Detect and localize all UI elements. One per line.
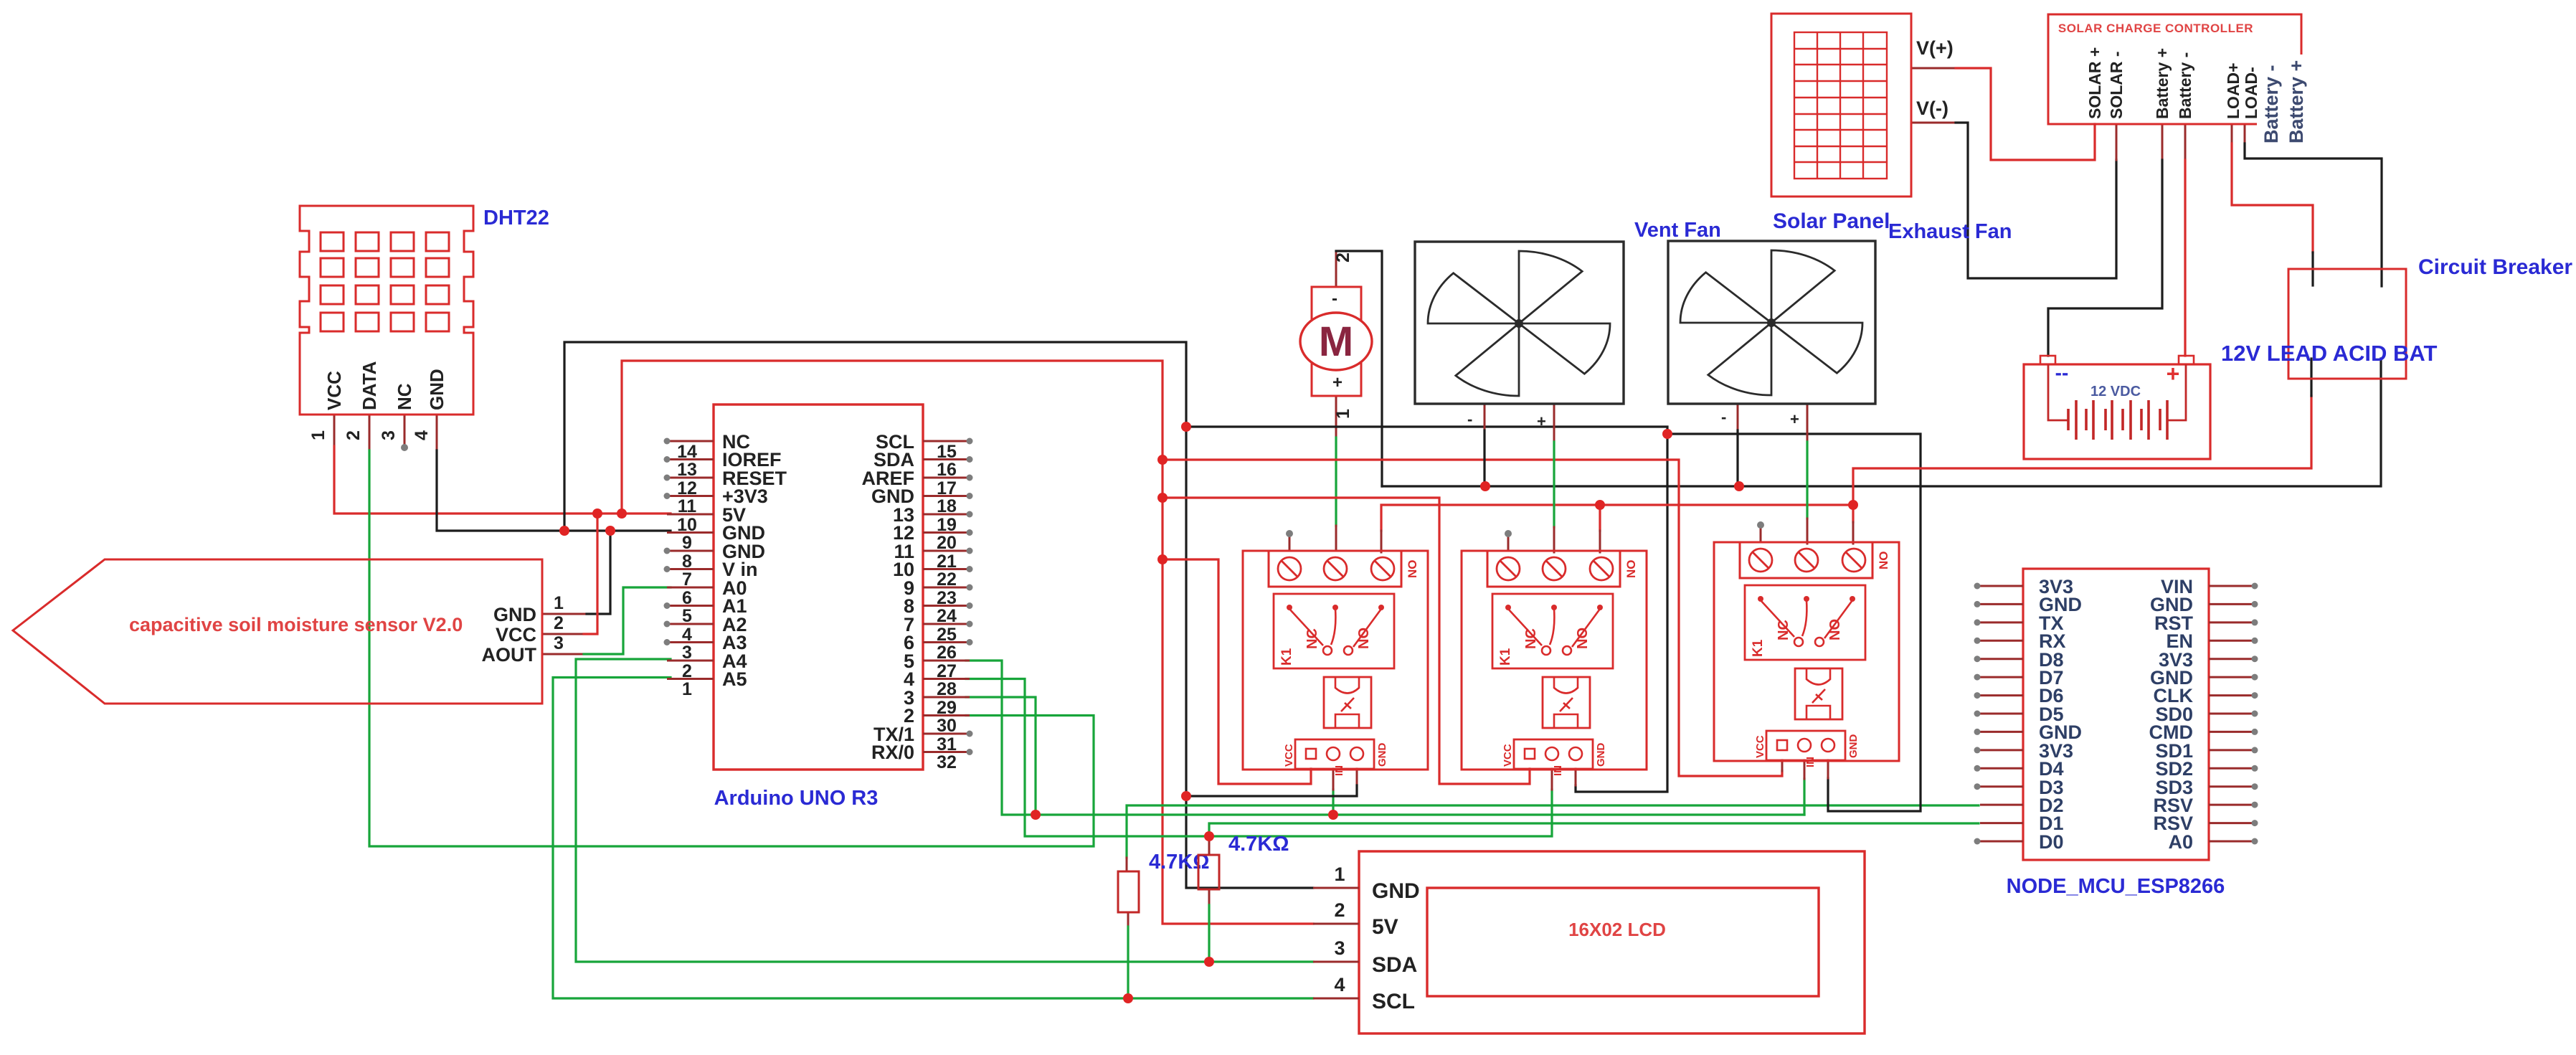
battery 12VDC box [2024,364,2210,459]
wire motor pin2 black drop [1336,251,1382,486]
panel Solar Panel cell grid [1794,32,1887,179]
wire solar panel V(-) stub [1911,122,1956,124]
svg-text:-: - [1332,289,1337,308]
svg-text:4: 4 [412,430,432,440]
fan Exhaust Fan box [1668,241,1875,404]
svg-text:2: 2 [344,430,364,440]
wire breaker top-left stub [2311,252,2314,285]
mcu Arduino UNO R3 body [714,405,923,770]
pin labels controller SOLAR+ SOLAR- Battery+ Battery- LOAD+ LOAD- [2085,47,2260,119]
wire solar panel V(+) stub [1911,67,1956,70]
wire controller Battery+ to battery terminal (black) [2048,160,2162,356]
pin labels vent fan - + [1467,410,1546,430]
fan Vent Fan blades [1428,251,1610,396]
svg-text:D0: D0 [2039,831,2064,853]
controller SOLAR CHARGE CONTROLLER box [2048,14,2301,124]
svg-text:10: 10 [677,515,697,535]
resistor R1 4.7K [1118,871,1139,912]
svg-text:13: 13 [677,460,697,480]
wire relay2 left screw stub [1507,536,1510,551]
svg-text:4.7KΩ: 4.7KΩ [1228,833,1289,856]
relay module 1 (K1, motor) [1243,551,1428,776]
svg-text:1: 1 [1334,864,1345,885]
wire breaker bottom-left stub [2310,359,2312,396]
svg-text:4: 4 [1334,974,1345,995]
svg-text:VCC: VCC [496,624,536,645]
wire relay1 NO stub [1381,531,1383,552]
wire motor pin2 stub [1335,251,1337,287]
wire Arduino A5 to SCL bus (green) [553,678,1313,999]
svg-text:3: 3 [379,430,399,440]
battery terminals [2040,356,2194,364]
wire relay3 GND stub [1827,760,1829,778]
wire DHT22 DATA to Arduino pin 2 (green, bus B4) [369,450,1094,846]
wire Arduino pin 4 to bus B3 / relay2 IN (green) [966,679,1552,837]
fan Vent Fan hub [1515,319,1523,328]
svg-text:NC: NC [394,383,415,410]
svg-text:16X02 LCD: 16X02 LCD [1568,919,1666,940]
svg-text:K1: K1 [1279,648,1294,666]
unconnected pin dots (gray) [401,438,2258,845]
svg-text:1: 1 [308,430,328,440]
svg-text:5V: 5V [1372,915,1398,939]
svg-text:SOLAR +: SOLAR + [2085,47,2104,119]
svg-text:RX/0: RX/0 [871,742,914,763]
wire relay1 IN to bus B2 (green) [1332,790,1334,815]
svg-text:VCC: VCC [323,371,345,410]
wire DHT22 VCC to Arduino 5V (red 5V net) [334,446,671,514]
wire resistor R2 bottom to SDA bus (green) [1208,905,1210,962]
svg-text:GND: GND [426,369,448,410]
svg-text:IN: IN [1333,765,1345,776]
relay1 bottom pin block [1295,739,1374,769]
pin numbers Arduino right 15..32 [937,442,957,772]
wire exhaust fan minus to black bus [1736,430,1738,486]
svg-text:22: 22 [937,569,957,590]
display 16X02 LCD inner box [1427,888,1819,996]
wire resistor R2 top stub to bus B3 [1208,836,1211,855]
wire black GND riser to top bus, right to LCD GND [564,342,1313,888]
svg-text:A5: A5 [722,668,747,690]
wire relay3 NO stub [1852,522,1855,544]
wire DHT22 DATA pin2 stub [369,415,371,450]
pin names Arduino left [722,431,787,690]
pin names NodeMCU right [2149,576,2194,853]
wire motor pin1 stub [1335,396,1337,437]
wire DHT22 VCC pin1 stub [333,415,336,446]
pin labels DHT22 VCC DATA NC GND [323,361,448,410]
relay1 K1 box [1274,594,1394,668]
svg-text:Battery +: Battery + [2153,48,2172,119]
svg-text:23: 23 [937,588,957,608]
svg-text:30: 30 [937,716,957,736]
mcu NODE_MCU_ESP8266 body [2023,569,2209,860]
svg-text:+: + [1790,410,1799,428]
relay1 screw terminals [1278,557,1394,580]
svg-text:SOLAR CHARGE CONTROLLER: SOLAR CHARGE CONTROLLER [2058,22,2253,35]
svg-text:2: 2 [1333,252,1353,262]
wire relay2 NO stub [1599,531,1601,552]
svg-text:GND: GND [1376,743,1388,767]
svg-text:NO: NO [1406,560,1419,579]
svg-text:SCL: SCL [1372,990,1415,1013]
wire resistor R1 top stub [1126,858,1128,871]
svg-text:16: 16 [937,460,957,480]
relay1 optocoupler box [1324,677,1371,728]
svg-text:capacitive soil moisture senso: capacitive soil moisture sensor V2.0 [129,614,463,635]
svg-text:9: 9 [682,533,692,553]
wire controller Battery+ stub [2161,124,2164,160]
pin names LCD GND 5V SDA SCL [1372,879,1420,1013]
wire solar panel V(+) to controller SOLAR+ [1956,68,2095,160]
pin labels motor 2 1 + - [1332,252,1353,419]
wire relay1 left screw stub [1289,536,1291,551]
wire Arduino pin 3 drop to bus B2 (green) [966,697,1036,815]
wire relay3 IN stub [1804,760,1806,779]
relay1 pin labels VCC IN GND [1283,743,1388,777]
svg-text:26: 26 [937,643,957,663]
wire relay1 IN stub [1332,769,1335,790]
svg-text:3: 3 [554,633,564,653]
svg-text:2: 2 [554,613,564,633]
wire controller LOAD+ stub [2231,124,2233,143]
svg-text:VCC: VCC [1283,744,1295,767]
svg-text:17: 17 [937,478,957,498]
svg-text:Battery +: Battery + [2286,60,2307,143]
pin numbers DHT22 1 2 3 4 [308,430,432,440]
wire resistor R1 bottom stub [1127,912,1130,927]
wire vent fan plus to relay2 middle screw (green) [1553,442,1555,527]
wire exhaust fan minus stub [1737,404,1739,430]
wire DHT22 GND pin4 stub [436,415,438,450]
svg-text:Arduino UNO R3: Arduino UNO R3 [714,787,879,810]
wire relay2 IN stub [1551,769,1553,790]
svg-text:18: 18 [937,496,957,516]
svg-text:3: 3 [1334,937,1345,959]
pins NodeMCU right stubs [2209,586,2252,841]
wire DHT22 NC pin3 stub [404,415,406,445]
svg-text:11: 11 [678,496,697,516]
wire vent fan minus to black bus [1483,430,1485,486]
wire soil sensor AOUT to Arduino A0 (green) [584,587,671,654]
pins LCD stubs [1313,888,1359,998]
wire exhaust fan plus lower stub [1806,519,1809,544]
svg-text:Solar Panel: Solar Panel [1773,209,1890,233]
wire relay1 GND stub [1356,769,1358,785]
relay1 optocoupler symbol [1335,677,1359,728]
relay1 outer box [1243,551,1428,770]
resistor R2 4.7K [1198,855,1219,889]
svg-text:3: 3 [682,643,692,663]
svg-text:14: 14 [677,442,697,462]
wire controller LOAD- to breaker (black) [2245,143,2382,286]
svg-text:DATA: DATA [359,361,380,410]
svg-text:28: 28 [937,679,957,699]
svg-text:7: 7 [682,569,692,590]
svg-text:-: - [1467,410,1472,428]
wire controller LOAD+ to breaker (red) [2232,143,2313,252]
svg-text:SOLAR -: SOLAR - [2107,51,2126,119]
svg-text:8: 8 [682,552,692,572]
pin numbers Arduino left 14..1 [677,442,697,699]
relay module 2 (vent fan) [1462,551,1647,776]
svg-text:Exhaust Fan: Exhaust Fan [1888,220,2012,243]
pins NodeMCU left stubs [1980,586,2023,841]
fan Exhaust Fan blades [1680,250,1862,395]
wire relay3 IN to bus B1 (green) [1803,779,1805,815]
svg-text:6: 6 [682,588,692,608]
svg-text:25: 25 [937,625,957,645]
svg-text:DHT22: DHT22 [483,207,549,230]
svg-text:NODE_MCU_ESP8266: NODE_MCU_ESP8266 [2007,875,2225,898]
svg-text:Vent Fan: Vent Fan [1634,219,1721,242]
svg-text:32: 32 [937,752,957,772]
svg-text:LOAD-: LOAD- [2242,67,2260,119]
wire controller SOLAR- stub [2116,124,2118,160]
wire relay3 VCC stub [1781,760,1784,771]
pin names NodeMCU left [2039,576,2082,853]
motor M1 body [1300,287,1372,396]
wire soil sensor VCC stub [542,633,584,635]
wire red 5V riser to top bus, down right side to LCD 5V [622,361,1313,924]
wire exhaust fan plus stub [1806,404,1809,442]
svg-text:+: + [2167,361,2180,387]
svg-text:5: 5 [682,606,692,626]
svg-text:31: 31 [937,734,957,754]
wire Arduino A4 to SDA bus (green) [576,659,1313,962]
svg-text:19: 19 [937,515,957,535]
wire black bus y605 over relays [1667,434,1921,811]
sensor DHT22 body outline [300,206,473,415]
wire controller Battery- to battery plus terminal (red) [2184,160,2186,356]
svg-text:+: + [1332,373,1343,392]
pin numbers soil sensor 1 2 3 [554,593,564,653]
wire red bus y694 to relay2 VCC [1162,498,1530,784]
relay1 terminal block [1269,551,1401,587]
labels controller external Battery - Battery + [2260,60,2307,143]
wire solar panel V(-) to controller SOLAR- (black) [1956,123,2116,278]
panel Solar Panel outer box [1771,14,1911,197]
wire soil sensor VCC to 5V net [584,514,597,634]
pins Arduino right stubs [923,441,970,752]
svg-text:A0: A0 [2168,831,2193,853]
wire relay2 GND stub [1575,769,1577,785]
svg-text:27: 27 [937,661,957,681]
svg-text:+: + [1537,412,1546,430]
wire resistor R2 bottom stub [1208,889,1211,905]
wire relay2 NO screw riser [1599,505,1601,531]
svg-text:AOUT: AOUT [482,644,537,666]
wire controller LOAD- stub [2244,124,2246,143]
svg-text:12: 12 [677,478,697,498]
wire Arduino pin 5 to bus B2 / NodeMCU D1 (green) [966,661,1804,815]
sensor capacitive soil moisture sensor V2.0 outline [13,559,542,704]
svg-text:2: 2 [682,661,692,681]
svg-text:12V LEAD ACID BAT: 12V LEAD ACID BAT [2221,341,2437,366]
svg-text:2: 2 [1334,899,1345,921]
wire DHT22 GND to Arduino GND (black GND net) [437,450,671,531]
display 16X02 LCD outer box [1359,851,1865,1033]
svg-text:1: 1 [554,593,564,613]
svg-text:M: M [1319,318,1353,365]
svg-text:20: 20 [937,533,957,553]
pin labels exhaust fan - + [1721,408,1799,428]
battery cells [2048,364,2186,440]
wire soil sensor AOUT stub [542,653,584,656]
wire relay3 NO screw riser [1852,505,1854,522]
svg-text:--: -- [2055,361,2069,384]
svg-text:V(-): V(-) [1916,98,1948,119]
wire black mid bus y590 down to relay2 GND [1186,427,1667,792]
wire black negative bus to circuit breaker [1382,359,2381,486]
svg-text:V(+): V(+) [1916,37,1954,59]
junction dots (red) [559,422,1858,1003]
wire motor pin1 to relay1 middle screw (green) [1335,437,1337,526]
svg-text:1: 1 [682,679,692,699]
svg-text:12 VDC: 12 VDC [2090,384,2141,399]
svg-text:SDA: SDA [1372,953,1417,977]
wire exhaust fan plus to relay3 middle screw (green) [1806,442,1808,519]
wire soil sensor GND stub [542,613,587,615]
relay module 3 (exhaust fan) [1714,542,1899,767]
wire resistor R1 bottom to SCL bus (green) [1127,927,1129,998]
wire red bus y641 to relay3 VCC [1162,460,1782,776]
fan Vent Fan box [1415,242,1624,404]
pin names Arduino right [862,431,915,763]
svg-text:Battery -: Battery - [2176,52,2194,119]
svg-text:29: 29 [937,698,957,718]
svg-text:LOAD+: LOAD+ [2224,62,2243,119]
svg-text:24: 24 [937,606,957,626]
svg-text:GND: GND [493,604,536,625]
relay1 contacts [1289,609,1381,655]
svg-text:Circuit Breaker: Circuit Breaker [2418,255,2572,279]
wire soil sensor GND to GND net [587,531,610,614]
svg-text:Battery -: Battery - [2260,65,2282,143]
relay1 contact pins [1287,605,1384,610]
svg-text:1: 1 [1333,409,1353,419]
pin numbers LCD 1 2 3 4 [1334,864,1345,995]
svg-text:-: - [1721,408,1726,426]
pins Arduino left stubs [667,441,714,679]
pin labels soil sensor GND VCC AOUT [482,604,537,666]
wire bus B1 resistor R1 to NodeMCU D2 (green) [1127,805,1979,858]
breaker Circuit Breaker box [2288,269,2406,379]
wire vent fan plus lower stub [1553,527,1555,552]
wire vent fan minus stub [1484,404,1486,430]
wire vent fan plus stub [1553,404,1555,442]
wire relay1 VCC feed [1162,559,1311,784]
svg-text:GND: GND [1372,879,1420,903]
fan Exhaust Fan hub [1767,318,1776,327]
relay1 VCC IN GND pins [1306,747,1363,760]
svg-text:21: 21 [937,552,957,572]
wire resistor R2 riser to D1 line (green) [1209,823,1979,836]
wire motor pin1 lower stub [1335,526,1337,551]
wire relay3 left screw stub [1760,527,1762,542]
wire relay1 GND to GND riser [1186,785,1357,796]
wire relay1 NO to relay NO bus and circuit breaker [1381,396,2311,531]
svg-text:15: 15 [937,442,957,462]
wire controller Battery- stub [2184,124,2187,160]
svg-text:4: 4 [682,625,692,645]
sensor DHT22 grid of vent squares [321,232,449,331]
